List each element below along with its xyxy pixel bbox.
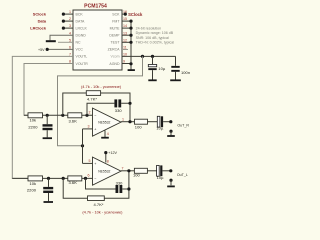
svg-text:1: 1 <box>69 10 71 14</box>
node top output <box>128 120 131 123</box>
wire pin7 VOUTL route left-down to bottom filter <box>12 56 73 178</box>
svg-text:6: 6 <box>69 46 71 50</box>
resistor R 10k bottom <box>28 176 43 181</box>
svg-text:4: 4 <box>69 31 71 35</box>
svg-text:3.6K: 3.6K <box>69 118 78 123</box>
wire top feedback resistor loop <box>63 93 130 122</box>
node bottom cap junction <box>47 177 50 180</box>
svg-text:VOUTR: VOUTR <box>76 62 89 66</box>
DAC U1 PCM1754 body <box>73 10 122 70</box>
svg-text:SNR: 106 dB, typical: SNR: 106 dB, typical <box>136 36 169 40</box>
svg-text:−: − <box>94 176 96 180</box>
wire pin14 MUTE stub <box>122 27 131 29</box>
svg-text:330: 330 <box>116 181 124 186</box>
capacitor C 2200 top <box>46 115 48 124</box>
wire Vcom rail pin10 <box>122 55 176 57</box>
U1 left pin numbers <box>69 10 71 63</box>
svg-text:4: 4 <box>107 132 109 136</box>
svg-text:+5V: +5V <box>38 48 45 52</box>
ground port below OuT_R <box>169 130 172 133</box>
svg-text:TEST: TEST <box>111 41 121 45</box>
svg-text:NE5532: NE5532 <box>98 169 110 173</box>
node bus pin14 <box>129 27 132 30</box>
wire to top out cap <box>148 121 158 123</box>
node bottom output <box>127 169 130 172</box>
svg-text:+: + <box>94 162 96 166</box>
wire into pin3 <box>83 128 93 130</box>
wire pin5 NC stub <box>58 41 73 43</box>
wire bias vertical to pin3 and pin5 <box>82 129 84 164</box>
node Vcom cap C 10u <box>151 55 154 58</box>
node bias junction <box>81 144 84 147</box>
node bottom feedback junction <box>62 177 65 180</box>
svg-text:2: 2 <box>69 17 71 21</box>
node pin3 port dot <box>62 27 65 30</box>
svg-text:VCC: VCC <box>76 48 84 52</box>
svg-text:+12V: +12V <box>108 151 117 155</box>
svg-text:2: 2 <box>89 111 91 115</box>
resistor R 100 bottom <box>134 168 147 173</box>
svg-text:5: 5 <box>89 159 91 163</box>
wire bottom filter row <box>12 177 92 179</box>
resistor R 4.7K* bottom feedback <box>88 196 105 201</box>
node bus pin15 <box>129 20 132 23</box>
wire pin2 DATA stub <box>63 20 73 22</box>
svg-text:DATA: DATA <box>76 19 85 23</box>
svg-text:(4.7k - 10k - усиление): (4.7k - 10k - усиление) <box>82 209 123 214</box>
wire to bottom out cap <box>147 170 156 172</box>
U1 right pin names <box>108 12 121 65</box>
svg-text:DGND: DGND <box>76 34 87 38</box>
wire ground bus vertical <box>130 21 132 70</box>
svg-text:2200: 2200 <box>28 125 38 130</box>
svg-text:330: 330 <box>115 108 123 113</box>
svg-text:100n: 100n <box>181 70 190 75</box>
wire pin6 VCC to +5V <box>47 48 73 50</box>
wire pin3 LRCLK stub <box>63 27 73 29</box>
U1 right pin numbers <box>123 10 127 63</box>
svg-text:Data: Data <box>38 19 47 24</box>
wire pin9 AGND stub <box>122 63 131 65</box>
svg-text:(4.7k - 10k - усиление): (4.7k - 10k - усиление) <box>81 84 122 89</box>
node SClock right dot <box>124 13 127 16</box>
svg-text:ZERCA: ZERCA <box>108 48 121 52</box>
ground port below OuT_L <box>169 179 172 182</box>
wire pin4 DGND to ground <box>50 35 73 40</box>
capacitor C 2200 bottom <box>48 178 50 187</box>
wire top filter row <box>24 114 93 116</box>
svg-text:Vcom: Vcom <box>111 55 120 59</box>
svg-text:24-bit resolution: 24-bit resolution <box>136 26 162 30</box>
svg-text:7: 7 <box>69 53 71 57</box>
ground under 2200 top <box>43 137 52 139</box>
svg-text:100: 100 <box>135 125 143 130</box>
node top 330 junction <box>85 114 88 117</box>
node bus pin12 <box>129 41 132 44</box>
wire pin12 TEST stub <box>122 41 131 43</box>
resistor R 10k top <box>28 113 43 118</box>
node Vcom jog <box>141 55 144 58</box>
svg-text:11: 11 <box>123 46 127 50</box>
wire top output row <box>121 121 135 123</box>
svg-text:3.6K: 3.6K <box>69 180 78 185</box>
node pin2 port dot <box>62 20 65 23</box>
node bus pin9 <box>129 62 132 65</box>
wire pin8 VOUTR route left-down to top filter <box>24 64 73 116</box>
svg-text:10k: 10k <box>30 181 37 186</box>
svg-text:8: 8 <box>69 60 71 64</box>
node OuT_L port <box>169 169 172 172</box>
svg-text:OuT_L: OuT_L <box>177 173 188 177</box>
wire pin1 BCK stub <box>63 13 73 15</box>
svg-text:+: + <box>94 127 96 131</box>
svg-text:NC: NC <box>76 41 82 45</box>
wire bottom output row <box>121 170 134 172</box>
node bus pin13 <box>129 34 132 37</box>
notes text <box>136 26 175 44</box>
wire into pin5 <box>83 162 93 164</box>
svg-text:NE5532: NE5532 <box>98 120 110 124</box>
svg-text:5: 5 <box>69 38 71 42</box>
+12V supply <box>105 153 107 163</box>
svg-text:AGND: AGND <box>109 62 120 66</box>
node OuT_R port <box>169 120 172 123</box>
svg-text:LRCLK: LRCLK <box>76 26 88 30</box>
svg-text:4.7K*: 4.7K* <box>94 202 104 207</box>
svg-text:10µ: 10µ <box>157 175 165 180</box>
capacitor C 10u top output <box>157 116 160 127</box>
capacitor 10u Vcom decoupling <box>152 56 154 64</box>
wire pin15 FMT stub <box>122 20 131 22</box>
svg-text:10k: 10k <box>30 117 37 122</box>
svg-text:2200: 2200 <box>27 187 37 192</box>
capacitor C 330 bottom <box>116 185 119 193</box>
svg-text:−: − <box>94 114 96 118</box>
svg-text:Dynamic range: 106 dB: Dynamic range: 106 dB <box>136 31 174 35</box>
svg-text:PCM1754: PCM1754 <box>84 4 107 10</box>
svg-text:6: 6 <box>88 174 90 178</box>
svg-text:10µ: 10µ <box>158 66 166 71</box>
capacitor C 10u bottom output <box>157 165 160 176</box>
ground DGND <box>46 40 56 42</box>
ground under 10u <box>148 79 156 81</box>
ground under 100n <box>170 79 181 81</box>
svg-text:MUTE: MUTE <box>110 26 121 30</box>
svg-text:4.7K*: 4.7K* <box>87 96 97 101</box>
resistor R 3.6K bottom <box>68 176 82 181</box>
svg-text:7: 7 <box>122 166 124 170</box>
op-amp U2A NE5532 top <box>93 108 122 136</box>
wire pin13 DEMP stub <box>122 34 131 36</box>
svg-text:DEMP: DEMP <box>109 34 120 38</box>
svg-text:VOUTL: VOUTL <box>76 55 88 59</box>
resistor R 3.6K top <box>68 113 82 118</box>
ground op-amp top pin4 <box>104 131 106 138</box>
wire bottom 330 loop <box>86 178 129 189</box>
wire Vcom bias route to op-amp + inputs <box>58 56 143 145</box>
svg-text:SClock: SClock <box>128 12 143 17</box>
svg-text:3: 3 <box>69 24 71 28</box>
wire pin11 ZERCA NC stub <box>122 49 128 51</box>
svg-text:LRClock: LRClock <box>30 26 47 31</box>
svg-text:3: 3 <box>88 124 90 128</box>
U1 left pin names <box>76 12 89 65</box>
resistor R 100 top <box>135 119 148 124</box>
svg-text:OuT_R: OuT_R <box>177 124 189 128</box>
svg-text:10µ: 10µ <box>156 125 164 130</box>
op-amp U2B NE5532 bottom <box>93 157 122 185</box>
svg-text:SClock: SClock <box>33 12 47 17</box>
node bottom 330 junction <box>84 177 87 180</box>
capacitor C 330 top <box>114 99 117 107</box>
svg-text:100: 100 <box>133 173 141 178</box>
node pin1 port dot <box>62 13 65 16</box>
ground under 2200 bottom <box>44 201 54 203</box>
wire bottom feedback resistor loop <box>63 171 129 198</box>
capacitor 100n Vcom decoupling <box>175 56 177 66</box>
node bottom 330 right <box>127 187 130 190</box>
svg-text:SCK: SCK <box>112 12 120 16</box>
svg-text:8: 8 <box>107 159 109 163</box>
node +5V dot <box>46 48 49 51</box>
wire top 330 loop <box>87 103 130 115</box>
svg-text:1: 1 <box>122 117 124 121</box>
svg-text:THD+N: 0.002%, typical: THD+N: 0.002%, typical <box>136 41 175 45</box>
resistor R 4.7K* top feedback <box>86 91 100 96</box>
ground bus <box>128 69 135 71</box>
node top 330 right <box>128 102 131 105</box>
node top cap junction <box>46 114 49 117</box>
svg-text:BCK: BCK <box>76 12 84 16</box>
node top feedback junction <box>61 114 64 117</box>
svg-text:FMT: FMT <box>112 19 120 23</box>
wire pin16 SCK stub <box>122 13 126 15</box>
